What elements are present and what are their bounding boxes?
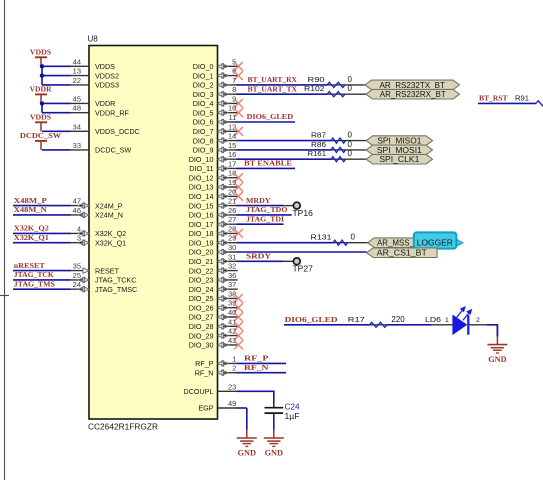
svg-text:DIO_16: DIO_16 bbox=[189, 211, 214, 220]
svg-text:DIO_30: DIO_30 bbox=[189, 341, 214, 350]
pin 27 DIO_17 (right) bbox=[189, 215, 237, 229]
svg-text:DIO_3: DIO_3 bbox=[193, 90, 214, 99]
svg-text:13: 13 bbox=[73, 67, 81, 76]
no-connect X on pin 40 bbox=[235, 313, 243, 321]
svg-text:25: 25 bbox=[73, 271, 81, 280]
no-connect X on pin 5 bbox=[235, 62, 243, 70]
svg-text:MRDY: MRDY bbox=[246, 196, 271, 205]
svg-text:DCOUPL: DCOUPL bbox=[184, 387, 214, 396]
junction dot VDDS pin44 bbox=[40, 64, 44, 68]
svg-text:48: 48 bbox=[73, 104, 81, 113]
port AR_RS232TX_BT bbox=[365, 80, 460, 90]
svg-text:VDDS2: VDDS2 bbox=[95, 71, 119, 80]
svg-text:X32K_Q2: X32K_Q2 bbox=[14, 224, 49, 233]
svg-text:JTAG_TMS: JTAG_TMS bbox=[14, 279, 55, 288]
junction dot VDDS pin13 bbox=[40, 73, 44, 77]
pin 10 DIO_5 (right) bbox=[193, 104, 243, 118]
svg-text:JTAG_TDI: JTAG_TDI bbox=[246, 214, 284, 223]
svg-text:JTAG_TCK: JTAG_TCK bbox=[14, 270, 54, 279]
svg-text:47: 47 bbox=[73, 197, 81, 206]
svg-text:JTAG_TCKC: JTAG_TCKC bbox=[95, 276, 136, 285]
svg-text:RF_N: RF_N bbox=[244, 363, 269, 372]
svg-text:DIO_27: DIO_27 bbox=[189, 313, 214, 322]
pin 11 DIO_6 (right) bbox=[193, 113, 237, 127]
wire DIO6_GLED to R17 bbox=[284, 324, 370, 326]
port SPI_MOSI1 bbox=[366, 145, 432, 155]
svg-text:1: 1 bbox=[232, 354, 236, 363]
svg-text:JTAG_TDO: JTAG_TDO bbox=[246, 205, 288, 214]
svg-text:DIO_18: DIO_18 bbox=[189, 229, 214, 238]
svg-text:2: 2 bbox=[232, 364, 236, 373]
svg-text:26: 26 bbox=[228, 206, 236, 215]
svg-text:0: 0 bbox=[348, 75, 353, 84]
pin 1 RF_P (right) bbox=[195, 354, 236, 368]
wire DCOUPL to C24 bbox=[237, 391, 274, 403]
wire VDDS to pin row 1 bbox=[42, 75, 71, 77]
svg-text:R161: R161 bbox=[308, 149, 327, 158]
wire R17 to LD6 bbox=[387, 324, 432, 326]
svg-text:BT_RST: BT_RST bbox=[479, 94, 508, 103]
cyan highlight arrow tip of AR_MSS_LOGGER bbox=[455, 238, 463, 247]
svg-text:X32K_Q1: X32K_Q1 bbox=[14, 233, 49, 242]
svg-text:GND: GND bbox=[238, 449, 257, 458]
wire R87 to port bbox=[346, 140, 367, 142]
pin 41 DIO_28 (right) bbox=[189, 317, 243, 331]
svg-text:R102: R102 bbox=[304, 84, 325, 93]
svg-text:1: 1 bbox=[445, 317, 449, 324]
no-connect X on pin 41 bbox=[235, 322, 243, 330]
svg-text:SPI_CLK1: SPI_CLK1 bbox=[379, 155, 419, 164]
pin 32 DIO_22 (right) bbox=[189, 262, 238, 276]
pin 40 DIO_27 (right) bbox=[189, 308, 243, 322]
resistor R86 0 bbox=[311, 140, 353, 153]
pin 18 DIO_12 (right) bbox=[189, 169, 243, 183]
svg-text:X48M_N: X48M_N bbox=[14, 205, 47, 214]
pin 24 JTAG_TMSC (left) bbox=[71, 280, 138, 294]
svg-text:4: 4 bbox=[77, 224, 81, 233]
wire VDDS to pin row 2 bbox=[42, 84, 71, 86]
wire R161 to port bbox=[346, 158, 367, 160]
pin 13 VDDS2 (left) bbox=[71, 67, 119, 81]
svg-text:DIO6_GLED: DIO6_GLED bbox=[285, 315, 338, 324]
svg-text:14: 14 bbox=[228, 132, 236, 141]
wire net X32K_Q1 bbox=[13, 242, 71, 244]
pin 21 DIO_15 (right) bbox=[189, 197, 237, 211]
wire net X48M_N bbox=[13, 214, 71, 216]
wire to R161 bbox=[237, 158, 332, 160]
pin 30 DIO_20 (right) bbox=[189, 243, 237, 257]
svg-text:LOGGER: LOGGER bbox=[417, 239, 453, 248]
pin 28 DIO_18 (right) bbox=[189, 224, 243, 238]
IC U8 body CC2642R1FRGZR bbox=[89, 46, 218, 420]
wire BT_RST bbox=[478, 102, 536, 104]
resistor R161 0 bbox=[308, 149, 353, 162]
svg-text:R90: R90 bbox=[308, 75, 325, 84]
port AR_CS1_BT bbox=[367, 248, 437, 258]
pin 38 DIO_25 (right) bbox=[189, 289, 243, 303]
pin 14 DIO_8 (right) bbox=[193, 132, 237, 146]
svg-text:33: 33 bbox=[73, 141, 81, 150]
pin 4 X32K_Q2 (left) bbox=[71, 224, 127, 238]
svg-text:DIO_4: DIO_4 bbox=[193, 99, 214, 108]
pin 29 DIO_19 (right) bbox=[189, 234, 237, 248]
no-connect X on pin 39 bbox=[235, 304, 243, 312]
svg-text:R87: R87 bbox=[311, 131, 326, 140]
no-connect X on pin 19 bbox=[235, 183, 243, 191]
wire DIO6_GLED (pin 11) bbox=[237, 121, 296, 123]
svg-text:RF_N: RF_N bbox=[195, 368, 214, 377]
svg-text:CC2642R1FRGZR: CC2642R1FRGZR bbox=[88, 423, 158, 432]
pin 36 DIO_23 (right) bbox=[189, 271, 238, 285]
svg-text:0: 0 bbox=[348, 149, 353, 158]
port SPI_MISO1 bbox=[366, 136, 432, 146]
svg-text:0: 0 bbox=[351, 233, 356, 242]
wire net JTAG_TMS bbox=[13, 288, 71, 290]
svg-text:DIO_12: DIO_12 bbox=[189, 173, 214, 182]
svg-text:DIO_7: DIO_7 bbox=[193, 127, 214, 136]
power port VDDS (top) bbox=[30, 47, 51, 66]
svg-text:DIO_0: DIO_0 bbox=[193, 62, 214, 71]
svg-text:0: 0 bbox=[348, 84, 353, 93]
pin 26 DIO_16 (right) bbox=[189, 206, 237, 220]
no-connect X on pin 9 bbox=[235, 99, 243, 107]
svg-text:30: 30 bbox=[228, 243, 236, 252]
svg-text:C24: C24 bbox=[285, 403, 301, 412]
svg-text:LD6: LD6 bbox=[425, 315, 441, 324]
pin 45 VDDR (left) bbox=[71, 94, 116, 108]
wire VDDS to pin row 0 bbox=[42, 65, 71, 67]
svg-text:DIO_5: DIO_5 bbox=[193, 108, 214, 117]
svg-text:DIO_13: DIO_13 bbox=[189, 183, 214, 192]
svg-text:DIO_23: DIO_23 bbox=[189, 276, 214, 285]
svg-text:0: 0 bbox=[348, 131, 353, 140]
resistor R87 0 bbox=[311, 131, 353, 144]
ground GND (LD6) bbox=[487, 326, 507, 364]
svg-text:36: 36 bbox=[228, 271, 236, 280]
svg-text:23: 23 bbox=[228, 382, 236, 391]
svg-text:DIO_17: DIO_17 bbox=[189, 220, 214, 229]
wire R131 to port bbox=[348, 242, 368, 244]
svg-text:DIO_28: DIO_28 bbox=[189, 322, 214, 331]
svg-text:0: 0 bbox=[348, 140, 353, 149]
svg-text:nRESET: nRESET bbox=[14, 261, 46, 270]
junction dot VDDR pin45 bbox=[40, 101, 44, 105]
wire VDDS vertical bbox=[41, 66, 43, 85]
svg-text:RF_P: RF_P bbox=[195, 359, 214, 368]
svg-text:37: 37 bbox=[228, 280, 236, 289]
svg-text:DIO_14: DIO_14 bbox=[189, 192, 214, 201]
svg-text:R17: R17 bbox=[348, 315, 365, 324]
resistor R91 (partially off-sheet) bbox=[515, 93, 543, 106]
no-connect X on pin 42 bbox=[235, 332, 243, 340]
port AR_RS232RX_BT bbox=[366, 89, 460, 99]
svg-text:35: 35 bbox=[73, 262, 81, 271]
svg-text:45: 45 bbox=[73, 94, 81, 103]
svg-text:17: 17 bbox=[228, 159, 236, 168]
port AR_MSS_LOGGER bbox=[368, 238, 457, 248]
svg-text:VDDR: VDDR bbox=[95, 99, 115, 108]
wire to R87 bbox=[237, 140, 332, 142]
sheet border zone tick bbox=[0, 295, 9, 297]
ground GND (C24) bbox=[264, 418, 284, 458]
no-connect X on pin 18 bbox=[235, 174, 243, 182]
pin 39 DIO_26 (right) bbox=[189, 299, 243, 313]
wire VDDR to pin 45 bbox=[42, 102, 71, 104]
wire MRDY bbox=[237, 205, 284, 207]
svg-text:RESET: RESET bbox=[95, 266, 120, 275]
svg-text:VDDS3: VDDS3 bbox=[95, 81, 119, 90]
svg-text:DIO_1: DIO_1 bbox=[193, 71, 214, 80]
svg-text:BT_UART_TX: BT_UART_TX bbox=[248, 84, 298, 93]
svg-text:DIO_20: DIO_20 bbox=[189, 248, 214, 257]
svg-text:SRDY: SRDY bbox=[246, 252, 271, 261]
wire DIO_20 to AR_CS1_BT bbox=[237, 251, 367, 253]
wire VDDR to pin 48 bbox=[42, 112, 71, 114]
wire DCDC_SW to pin 33 bbox=[42, 149, 71, 151]
svg-text:TP27: TP27 bbox=[293, 265, 313, 274]
svg-text:X32K_Q2: X32K_Q2 bbox=[95, 229, 126, 238]
wire DIO_19 to R131 bbox=[237, 242, 334, 244]
svg-text:R131: R131 bbox=[311, 233, 332, 242]
wire SRDY bbox=[237, 260, 284, 262]
wire RF_N bbox=[237, 372, 287, 374]
svg-text:VDDS_DCDC: VDDS_DCDC bbox=[95, 127, 140, 136]
pin 23 DCOUPL (right) bbox=[184, 382, 237, 396]
pin 33 DCDC_SW (left) bbox=[71, 141, 132, 155]
svg-text:GND: GND bbox=[488, 355, 507, 364]
no-connect X on pin 38 bbox=[235, 294, 243, 302]
svg-text:JTAG_TMSC: JTAG_TMSC bbox=[95, 285, 137, 294]
svg-text:46: 46 bbox=[73, 206, 81, 215]
svg-text:DIO_29: DIO_29 bbox=[189, 331, 214, 340]
no-connect X on pin 6 bbox=[235, 72, 243, 80]
pin 34 VDDS_DCDC (left) bbox=[71, 122, 140, 136]
svg-text:TP16: TP16 bbox=[293, 209, 313, 218]
svg-text:1µF: 1µF bbox=[285, 412, 300, 421]
svg-text:DIO_22: DIO_22 bbox=[189, 266, 214, 275]
svg-text:DIO_21: DIO_21 bbox=[189, 257, 214, 266]
svg-text:7: 7 bbox=[232, 76, 236, 85]
wire R102 to port bbox=[345, 93, 366, 95]
pin 19 DIO_13 (right) bbox=[189, 178, 243, 192]
svg-text:X48M_P: X48M_P bbox=[14, 196, 47, 205]
svg-text:VDDS: VDDS bbox=[95, 62, 115, 71]
svg-text:SPI_MISO1: SPI_MISO1 bbox=[377, 137, 421, 146]
svg-text:EGP: EGP bbox=[198, 404, 213, 413]
svg-text:DIO_25: DIO_25 bbox=[189, 294, 214, 303]
resistor R102 0 bbox=[304, 84, 353, 97]
resistor R90 0 bbox=[308, 75, 353, 88]
svg-text:49: 49 bbox=[228, 399, 236, 408]
svg-text:16: 16 bbox=[228, 150, 236, 159]
pin 35 RESET (left) bbox=[71, 262, 120, 276]
pin 8 DIO_3 (right) bbox=[193, 85, 237, 99]
pin 12 DIO_7 (right) bbox=[193, 122, 243, 136]
svg-text:DIO_19: DIO_19 bbox=[189, 238, 214, 247]
pin 37 DIO_24 (right) bbox=[189, 280, 238, 294]
svg-text:15: 15 bbox=[228, 141, 236, 150]
svg-text:DIO_24: DIO_24 bbox=[189, 285, 214, 294]
pin 3 X32K_Q1 (left) bbox=[71, 234, 127, 248]
pin 48 VDDR_RF (left) bbox=[71, 104, 130, 118]
test point TP16 bbox=[283, 202, 313, 218]
pin 31 DIO_21 (right) bbox=[189, 252, 237, 266]
svg-text:AR_RS232TX_BT: AR_RS232TX_BT bbox=[380, 81, 446, 90]
wire JTAG_TDO bbox=[237, 214, 292, 216]
svg-text:29: 29 bbox=[228, 234, 236, 243]
no-connect X on pin 43 bbox=[235, 341, 243, 349]
svg-text:BT ENABLE: BT ENABLE bbox=[244, 159, 292, 168]
svg-text:GND: GND bbox=[265, 449, 284, 458]
wire to R86 bbox=[237, 149, 332, 151]
sheet border left edge bbox=[4, 0, 6, 480]
svg-text:21: 21 bbox=[228, 197, 236, 206]
svg-text:VDDR_RF: VDDR_RF bbox=[95, 108, 130, 117]
pin 22 VDDS3 (left) bbox=[71, 76, 119, 90]
no-connect X on pin 28 bbox=[235, 229, 243, 237]
svg-text:DIO_2: DIO_2 bbox=[193, 81, 214, 90]
wire EGP down bbox=[237, 407, 247, 409]
pin 42 DIO_29 (right) bbox=[189, 327, 243, 341]
svg-text:DIO_10: DIO_10 bbox=[189, 155, 214, 164]
svg-text:DCDC_SW: DCDC_SW bbox=[20, 131, 62, 140]
svg-text:VDDR: VDDR bbox=[30, 84, 52, 93]
ground GND (EGP) bbox=[237, 408, 257, 458]
svg-text:44: 44 bbox=[73, 57, 81, 66]
svg-text:11: 11 bbox=[229, 113, 237, 122]
svg-text:DIO_8: DIO_8 bbox=[193, 136, 214, 145]
wire RF_P bbox=[237, 362, 287, 364]
svg-text:AR_RS232RX_BT: AR_RS232RX_BT bbox=[380, 90, 446, 99]
svg-text:2: 2 bbox=[476, 317, 480, 324]
svg-text:VDDS: VDDS bbox=[30, 112, 51, 121]
wire BT ENABLE (pin 17) bbox=[237, 167, 296, 169]
wire net nRESET bbox=[13, 270, 71, 272]
LED LD6 bbox=[425, 315, 487, 336]
svg-text:U8: U8 bbox=[88, 35, 99, 44]
svg-text:DIO_15: DIO_15 bbox=[189, 201, 214, 210]
pin 25 JTAG_TCKC (left) bbox=[71, 271, 137, 285]
svg-text:X32K_Q1: X32K_Q1 bbox=[95, 238, 126, 247]
resistor R131 0 bbox=[311, 233, 356, 246]
pin 15 DIO_9 (right) bbox=[193, 141, 237, 155]
svg-text:X24M_P: X24M_P bbox=[95, 201, 123, 210]
no-connect X on pin 10 bbox=[235, 109, 243, 117]
svg-text:DIO_6: DIO_6 bbox=[193, 118, 214, 127]
svg-text:R86: R86 bbox=[311, 140, 326, 149]
cyan search highlight box LOGGER bbox=[414, 232, 457, 248]
wire R90 to port bbox=[345, 84, 365, 86]
port SPI_CLK1 bbox=[366, 154, 432, 164]
wire net JTAG_TCK bbox=[13, 279, 71, 281]
svg-text:DIO_26: DIO_26 bbox=[189, 303, 214, 312]
svg-text:8: 8 bbox=[232, 85, 236, 94]
svg-text:31: 31 bbox=[228, 252, 236, 261]
svg-text:RF_P: RF_P bbox=[244, 354, 269, 363]
pin 2 RF_N (right) bbox=[195, 364, 237, 378]
pin 17 DIO_11 (right) bbox=[189, 159, 236, 173]
pin 5 DIO_0 (right) bbox=[193, 57, 243, 71]
svg-text:AR_MSS_: AR_MSS_ bbox=[377, 239, 415, 248]
svg-text:24: 24 bbox=[73, 280, 81, 289]
wire BT_UART_RX bbox=[237, 84, 328, 86]
pin 47 X24M_P (left) bbox=[71, 197, 123, 211]
capacitor C24 1uF bbox=[265, 403, 301, 421]
svg-text:34: 34 bbox=[73, 122, 81, 131]
power port VDDS (VDDS_DCDC) bbox=[30, 112, 51, 131]
pin 7 DIO_2 (right) bbox=[193, 76, 237, 90]
svg-text:BT_UART_RX: BT_UART_RX bbox=[248, 75, 298, 84]
svg-text:DIO_9: DIO_9 bbox=[193, 146, 214, 155]
power port VDDR bbox=[30, 84, 52, 103]
resistor R17 220 bbox=[348, 315, 405, 328]
no-connect X on pin 12 bbox=[235, 127, 243, 135]
LED emission arrows bbox=[457, 307, 472, 320]
wire LD6 to GND bbox=[487, 325, 497, 337]
test point TP27 bbox=[283, 258, 313, 274]
svg-text:VDDS: VDDS bbox=[30, 47, 51, 56]
no-connect X on pin 20 bbox=[235, 192, 243, 200]
pin 20 DIO_14 (right) bbox=[189, 187, 243, 201]
wire VDDS to pin 34 bbox=[42, 130, 71, 132]
wire VDDR vertical bbox=[41, 103, 43, 112]
svg-text:SPI_MOSI1: SPI_MOSI1 bbox=[377, 146, 422, 155]
svg-text:22: 22 bbox=[73, 76, 81, 85]
svg-text:DIO6_GLED: DIO6_GLED bbox=[247, 112, 294, 121]
svg-text:32: 32 bbox=[228, 262, 236, 271]
svg-text:X24M_N: X24M_N bbox=[95, 211, 123, 220]
wire net X32K_Q2 bbox=[13, 232, 71, 234]
wire R86 to port bbox=[346, 149, 367, 151]
pin 16 DIO_10 (right) bbox=[189, 150, 237, 164]
pin 9 DIO_4 (right) bbox=[193, 94, 243, 108]
pin 43 DIO_30 (right) bbox=[189, 336, 243, 350]
svg-text:AR_CS1_BT: AR_CS1_BT bbox=[377, 249, 427, 258]
wire JTAG_TDI bbox=[237, 223, 284, 225]
pin 44 VDDS (left) bbox=[71, 57, 116, 71]
pin 49 EGP (right) bbox=[198, 399, 236, 413]
wire net X48M_P bbox=[13, 205, 71, 207]
svg-text:DCDC_SW: DCDC_SW bbox=[95, 146, 132, 155]
svg-text:27: 27 bbox=[228, 215, 236, 224]
svg-text:220: 220 bbox=[391, 315, 405, 324]
pin 46 X24M_N (left) bbox=[71, 206, 123, 220]
pin 6 DIO_1 (right) bbox=[193, 67, 243, 81]
svg-text:DIO_11: DIO_11 bbox=[189, 164, 213, 173]
svg-text:R91: R91 bbox=[515, 93, 529, 102]
wire BT_UART_TX bbox=[237, 93, 328, 95]
power port DCDC_SW bbox=[20, 131, 62, 150]
svg-text:3: 3 bbox=[77, 234, 81, 243]
